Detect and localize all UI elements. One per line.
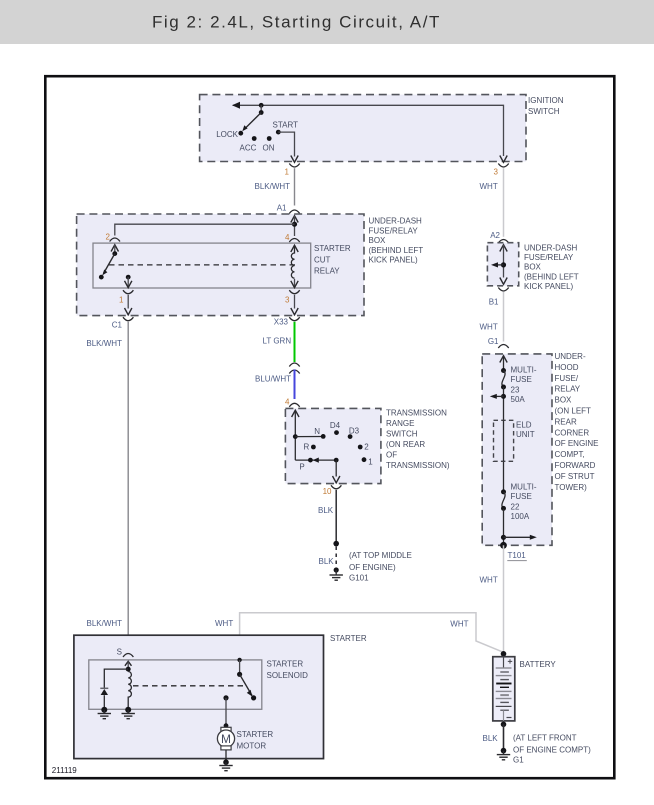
under-dash fuse/relay box (left, dashed)	[77, 214, 364, 316]
svg-text:D4: D4	[330, 421, 341, 430]
svg-text:IGNITION: IGNITION	[528, 96, 564, 105]
svg-text:FORWARD: FORWARD	[555, 461, 596, 470]
wire TRS entry	[292, 410, 299, 460]
svg-text:T101: T101	[508, 551, 527, 560]
label BATTERY	[520, 660, 557, 669]
svg-text:(ON LEFT: (ON LEFT	[555, 407, 592, 416]
svg-text:WHT: WHT	[480, 323, 498, 332]
wire S entry	[125, 661, 132, 671]
ground G1	[497, 748, 510, 760]
svg-text:(BEHIND LEFT: (BEHIND LEFT	[524, 272, 579, 281]
contact D3	[348, 426, 360, 439]
svg-text:UNDER-DASH: UNDER-DASH	[524, 243, 578, 252]
switch blade to LOCK	[242, 113, 261, 132]
relay mechanical link (dashed)	[109, 264, 296, 266]
battery	[493, 651, 515, 721]
svg-text:FUSE: FUSE	[511, 492, 532, 501]
label G101 location	[349, 551, 412, 583]
svg-text:(ON REAR: (ON REAR	[386, 440, 425, 449]
svg-text:3: 3	[494, 168, 499, 177]
svg-text:WHT: WHT	[450, 620, 468, 629]
svg-text:OF ENGINE: OF ENGINE	[555, 439, 599, 448]
svg-text:(AT TOP MIDDLE: (AT TOP MIDDLE	[349, 551, 412, 560]
label ELD UNIT	[516, 421, 535, 439]
svg-text:(BEHIND LEFT: (BEHIND LEFT	[369, 246, 424, 255]
starter box	[74, 635, 324, 758]
pin 1 ignition connector	[285, 164, 300, 177]
svg-text:B1: B1	[489, 298, 499, 307]
svg-text:23: 23	[511, 385, 520, 394]
svg-text:3: 3	[285, 296, 290, 305]
svg-text:D3: D3	[349, 426, 360, 435]
label STARTER	[330, 634, 367, 643]
relay common contact to pin 1	[125, 275, 132, 288]
svg-text:A1: A1	[277, 204, 287, 213]
svg-text:BOX: BOX	[524, 263, 542, 272]
svg-text:UNDER-DASH: UNDER-DASH	[369, 217, 423, 226]
solenoid coil	[128, 672, 131, 710]
svg-text:REAR: REAR	[555, 417, 577, 426]
label MULTI-FUSE 23 50A	[511, 365, 537, 404]
node TRS output junction	[333, 458, 340, 483]
ignition switch box	[200, 95, 526, 162]
ground diode	[98, 707, 111, 719]
ground starter motor	[219, 759, 232, 770]
svg-text:OF ENGINE): OF ENGINE)	[349, 563, 396, 572]
svg-text:P: P	[299, 463, 304, 472]
svg-text:1: 1	[285, 168, 290, 177]
under-hood fuse/relay box (dashed)	[482, 354, 552, 545]
wire G1 entry	[500, 356, 507, 371]
svg-text:KICK PANEL): KICK PANEL)	[524, 282, 574, 291]
svg-text:N: N	[314, 427, 320, 436]
node splice	[333, 541, 339, 547]
ground coil	[122, 707, 135, 719]
wire BLK/WHT C1 to starter (long)	[86, 322, 128, 652]
contact ACC	[240, 136, 257, 152]
wire A1 entry to junction	[291, 216, 298, 236]
relay switch blade	[99, 251, 117, 279]
svg-text:4: 4	[285, 398, 290, 407]
svg-text:A2: A2	[490, 231, 500, 240]
svg-text:MOTOR: MOTOR	[237, 742, 267, 751]
relay coil	[291, 245, 298, 287]
label UNDER-DASH FUSE/RELAY BOX (right)	[524, 243, 579, 291]
solenoid mechanical link (dashed)	[133, 685, 244, 687]
wire to clamp diode	[104, 669, 128, 688]
wire BLK/WHT ignition to A1	[255, 168, 295, 205]
solenoid contact blade	[237, 658, 256, 701]
svg-text:S: S	[117, 648, 122, 657]
pin 1 relay connector	[119, 290, 133, 315]
svg-text:ELD: ELD	[516, 421, 532, 430]
wire BLK pigtail (dotted)	[319, 547, 337, 567]
svg-text:TOWER): TOWER)	[555, 483, 588, 492]
wire BLK TRS to splice	[318, 490, 336, 544]
multi-fuse 22 100A	[501, 489, 506, 511]
svg-text:OF ENGINE COMPT): OF ENGINE COMPT)	[513, 746, 591, 755]
svg-text:Fig 2: 2.4L, Starting Circuit,: Fig 2: 2.4L, Starting Circuit, A/T	[152, 13, 441, 32]
svg-text:RANGE: RANGE	[386, 419, 414, 428]
svg-text:50A: 50A	[511, 395, 526, 404]
contact LOCK	[216, 130, 243, 139]
svg-text:SWITCH: SWITCH	[386, 430, 418, 439]
svg-text:BLK/WHT: BLK/WHT	[255, 182, 291, 191]
svg-text:FUSE/RELAY: FUSE/RELAY	[369, 226, 419, 235]
node ignition feed junction	[259, 103, 264, 115]
contact R	[304, 442, 316, 451]
ground G101	[330, 567, 343, 580]
svg-text:TRANSMISSION: TRANSMISSION	[386, 409, 447, 418]
svg-text:COMPT,: COMPT,	[555, 450, 585, 459]
svg-text:RELAY: RELAY	[314, 267, 340, 276]
contact START	[273, 121, 299, 135]
svg-text:BLK: BLK	[483, 734, 499, 743]
svg-text:STARTER: STARTER	[314, 244, 351, 253]
terminal T101	[500, 542, 527, 561]
node under-dash branch	[491, 262, 506, 267]
svg-text:BOX: BOX	[369, 236, 387, 245]
solenoid motor contact	[223, 695, 228, 725]
contact N	[314, 427, 325, 439]
svg-text:2: 2	[364, 442, 369, 451]
wire junction to pin 2	[115, 224, 295, 235]
wire BLU/WHT	[255, 370, 295, 400]
svg-text:TRANSMISSION): TRANSMISSION)	[386, 461, 450, 470]
svg-text:BLU/WHT: BLU/WHT	[255, 375, 291, 384]
svg-text:UNIT: UNIT	[516, 430, 535, 439]
label UNDER-DASH FUSE/RELAY BOX (left)	[369, 217, 424, 265]
svg-text:KICK PANEL): KICK PANEL)	[369, 256, 419, 265]
svg-text:M: M	[221, 732, 231, 746]
starter solenoid body	[89, 660, 262, 709]
figure number 211119	[52, 766, 77, 775]
connector S	[117, 648, 134, 658]
svg-text:SOLENOID: SOLENOID	[267, 671, 309, 680]
svg-text:BATTERY: BATTERY	[520, 660, 557, 669]
contact 2	[358, 442, 369, 451]
ELD unit box	[494, 420, 514, 461]
starter motor	[217, 723, 234, 762]
contact ON	[263, 136, 275, 152]
connector A2	[490, 231, 508, 243]
contact 1	[362, 457, 374, 466]
connector A1	[277, 204, 300, 214]
svg-text:C1: C1	[112, 321, 123, 330]
wire LT GRN	[263, 322, 295, 362]
wire WHT starter branch to battery	[215, 613, 504, 660]
svg-text:BLK/WHT: BLK/WHT	[87, 619, 123, 628]
svg-text:10: 10	[323, 487, 332, 496]
label UNDER-HOOD FUSE/RELAY BOX	[555, 352, 599, 492]
svg-text:LT GRN: LT GRN	[263, 337, 292, 346]
svg-text:WHT: WHT	[480, 576, 498, 585]
pin 4 relay connector	[285, 233, 300, 252]
svg-text:STARTER: STARTER	[267, 660, 304, 669]
svg-text:1: 1	[119, 296, 124, 305]
wire ignition feed (top horizontal)	[232, 102, 504, 156]
svg-text:BOX: BOX	[555, 396, 573, 405]
svg-text:211119: 211119	[52, 766, 77, 775]
pin 3 relay connector	[285, 290, 300, 315]
svg-text:SWITCH: SWITCH	[528, 107, 560, 116]
multi-fuse 23 50A	[501, 368, 506, 390]
svg-text:BLK: BLK	[318, 506, 334, 515]
svg-text:BLK: BLK	[319, 557, 335, 566]
wire WHT ignition pin 3 to A2	[480, 168, 504, 237]
svg-text:X33: X33	[274, 318, 289, 327]
pin 4 transmission range switch connector	[285, 398, 300, 407]
svg-text:G101: G101	[349, 574, 369, 583]
svg-text:FUSE: FUSE	[511, 375, 532, 384]
svg-text:100A: 100A	[511, 512, 530, 521]
svg-text:R: R	[304, 442, 310, 451]
svg-text:FUSE/: FUSE/	[555, 374, 579, 383]
node TRS junction N branch	[293, 434, 321, 439]
svg-text:FUSE/RELAY: FUSE/RELAY	[524, 253, 574, 262]
svg-text:MULTI-: MULTI-	[511, 483, 537, 492]
svg-text:RELAY: RELAY	[555, 385, 581, 394]
label MULTI-FUSE 22 100A	[511, 483, 537, 522]
svg-text:BLK/WHT: BLK/WHT	[86, 339, 122, 348]
svg-text:UNDER-: UNDER-	[555, 352, 586, 361]
contact D4	[330, 421, 341, 435]
label STARTER MOTOR	[237, 730, 274, 751]
connector C1	[112, 317, 134, 329]
label STARTER SOLENOID	[267, 660, 309, 681]
connector X33	[274, 317, 300, 326]
svg-text:22: 22	[511, 502, 520, 511]
svg-text:G1: G1	[488, 337, 499, 346]
wire through under-dash box	[500, 245, 507, 285]
wire fuse 23 down + branch arrow	[490, 387, 506, 492]
svg-text:1: 1	[368, 458, 373, 467]
svg-text:ACC: ACC	[240, 144, 257, 153]
wire fuse 22 to T101 + branch arrow	[501, 509, 537, 546]
svg-text:WHT: WHT	[215, 619, 233, 628]
svg-text:2: 2	[106, 233, 111, 242]
label STARTER CUT RELAY	[314, 244, 351, 276]
svg-text:CUT: CUT	[314, 256, 331, 265]
label G1 location	[513, 734, 591, 765]
svg-text:G1: G1	[513, 756, 524, 765]
label IGNITION SWITCH	[528, 96, 564, 116]
svg-text:STARTER: STARTER	[237, 730, 274, 739]
svg-text:OF: OF	[386, 451, 397, 460]
svg-text:(AT LEFT FRONT: (AT LEFT FRONT	[513, 734, 577, 743]
svg-text:4: 4	[285, 233, 290, 242]
title banner	[0, 0, 654, 44]
pin 2 relay connector	[106, 233, 120, 254]
svg-text:WHT: WHT	[480, 182, 498, 191]
wire WHT T101 to battery	[480, 545, 504, 652]
svg-text:LOCK: LOCK	[216, 130, 238, 139]
pin 3 ignition connector	[494, 156, 509, 177]
svg-text:STARTER: STARTER	[330, 634, 367, 643]
wire BLK battery to ground	[483, 722, 507, 749]
svg-text:CORNER: CORNER	[555, 428, 590, 437]
node relay feed junction	[292, 222, 297, 227]
connector pair X33/BLU junction	[289, 363, 299, 374]
contact P and common rail	[295, 458, 337, 472]
svg-text:START: START	[273, 121, 299, 130]
svg-text:MULTI-: MULTI-	[511, 365, 537, 374]
diagram frame	[45, 76, 614, 778]
diode	[100, 688, 108, 710]
label TRANSMISSION RANGE SWITCH	[386, 409, 450, 471]
pin 10 TRS connector	[323, 485, 342, 496]
svg-text:ON: ON	[263, 144, 275, 153]
wire WHT B1 to G1	[480, 292, 504, 342]
wire START to pin 1	[278, 132, 298, 162]
connector G1	[488, 337, 509, 348]
connector B1	[489, 288, 509, 307]
transmission range switch box	[285, 408, 381, 483]
svg-text:OF STRUT: OF STRUT	[555, 472, 595, 481]
under-dash fuse/relay box (right, dashed)	[487, 243, 518, 286]
svg-text:HOOD: HOOD	[555, 363, 579, 372]
starter cut relay body	[93, 243, 311, 288]
